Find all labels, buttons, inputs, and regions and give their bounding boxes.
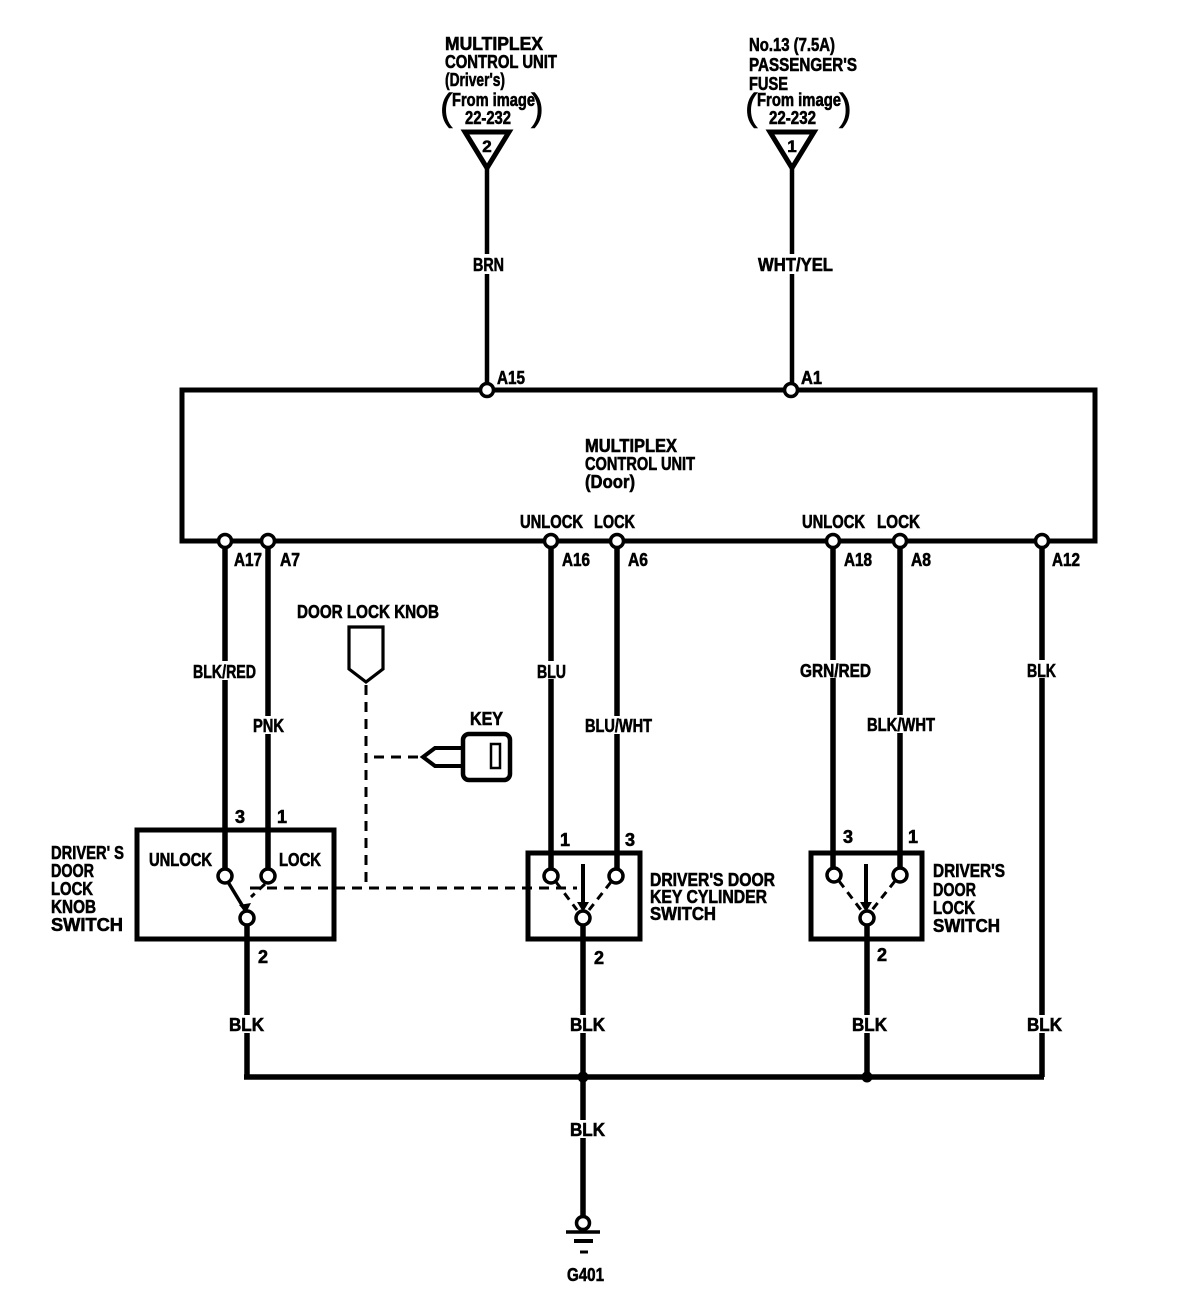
svg-text:BLK: BLK xyxy=(1027,661,1056,681)
svg-text:DOOR: DOOR xyxy=(51,861,94,881)
svg-text:From image: From image xyxy=(452,90,535,110)
svg-text:LOCK: LOCK xyxy=(877,512,920,532)
svg-text:(Door): (Door) xyxy=(585,472,635,492)
svg-text:BLK: BLK xyxy=(229,1015,264,1035)
svg-text:22-232: 22-232 xyxy=(769,108,816,128)
svg-text:MULTIPLEX: MULTIPLEX xyxy=(445,34,543,54)
svg-text:BLK/WHT: BLK/WHT xyxy=(867,715,935,735)
svg-text:A16: A16 xyxy=(562,550,590,570)
svg-text:2: 2 xyxy=(482,137,491,156)
svg-text:2: 2 xyxy=(877,945,887,965)
svg-text:BLU/WHT: BLU/WHT xyxy=(585,716,652,736)
svg-text:PNK: PNK xyxy=(253,716,284,736)
svg-text:DOOR: DOOR xyxy=(933,880,976,900)
svg-text:KEY: KEY xyxy=(470,709,503,729)
svg-text:A15: A15 xyxy=(497,368,525,388)
svg-text:UNLOCK: UNLOCK xyxy=(149,850,212,870)
svg-text:BLK: BLK xyxy=(570,1120,605,1140)
svg-text:1: 1 xyxy=(277,807,287,827)
svg-text:BLK: BLK xyxy=(1027,1015,1062,1035)
svg-text:BLK: BLK xyxy=(570,1015,605,1035)
svg-text:LOCK: LOCK xyxy=(51,879,93,899)
svg-text:22-232: 22-232 xyxy=(465,108,511,128)
svg-text:G401: G401 xyxy=(567,1265,604,1285)
svg-text:LOCK: LOCK xyxy=(279,850,321,870)
svg-text:A17: A17 xyxy=(234,550,262,570)
svg-text:UNLOCK: UNLOCK xyxy=(802,512,865,532)
svg-text:LOCK: LOCK xyxy=(933,898,975,918)
svg-text:DRIVER' S: DRIVER' S xyxy=(51,843,124,863)
svg-text:A1: A1 xyxy=(801,368,822,388)
svg-text:2: 2 xyxy=(258,947,268,967)
svg-text:BLK/RED: BLK/RED xyxy=(193,662,256,682)
svg-text:SWITCH: SWITCH xyxy=(933,916,1000,936)
svg-text:SWITCH: SWITCH xyxy=(650,904,716,924)
svg-text:SWITCH: SWITCH xyxy=(51,915,123,935)
svg-text:PASSENGER'S: PASSENGER'S xyxy=(749,55,857,75)
svg-text:2: 2 xyxy=(594,948,604,968)
svg-text:LOCK: LOCK xyxy=(594,512,635,532)
svg-text:BLU: BLU xyxy=(537,662,566,682)
svg-text:BLK: BLK xyxy=(852,1015,887,1035)
svg-text:A18: A18 xyxy=(844,550,872,570)
svg-text:BRN: BRN xyxy=(473,255,504,275)
svg-text:DOOR LOCK KNOB: DOOR LOCK KNOB xyxy=(297,602,439,622)
svg-text:1: 1 xyxy=(908,827,918,847)
svg-text:(Driver's): (Driver's) xyxy=(445,70,505,90)
svg-text:GRN/RED: GRN/RED xyxy=(800,661,871,681)
svg-text:MULTIPLEX: MULTIPLEX xyxy=(585,436,677,456)
svg-text:3: 3 xyxy=(625,830,635,850)
svg-text:1: 1 xyxy=(560,830,570,850)
svg-text:No.13 (7.5A): No.13 (7.5A) xyxy=(749,35,835,55)
svg-text:CONTROL UNIT: CONTROL UNIT xyxy=(445,52,557,72)
svg-text:WHT/YEL: WHT/YEL xyxy=(758,255,833,275)
svg-text:A12: A12 xyxy=(1052,550,1080,570)
svg-text:3: 3 xyxy=(235,807,245,827)
svg-text:3: 3 xyxy=(843,827,853,847)
svg-text:A8: A8 xyxy=(911,550,931,570)
svg-text:A7: A7 xyxy=(280,550,300,570)
svg-text:KNOB: KNOB xyxy=(51,897,96,917)
svg-text:UNLOCK: UNLOCK xyxy=(520,512,583,532)
svg-text:From image: From image xyxy=(757,90,841,110)
svg-text:DRIVER'S: DRIVER'S xyxy=(933,861,1005,881)
svg-text:CONTROL UNIT: CONTROL UNIT xyxy=(585,454,695,474)
svg-text:A6: A6 xyxy=(628,550,648,570)
svg-text:1: 1 xyxy=(787,137,796,156)
